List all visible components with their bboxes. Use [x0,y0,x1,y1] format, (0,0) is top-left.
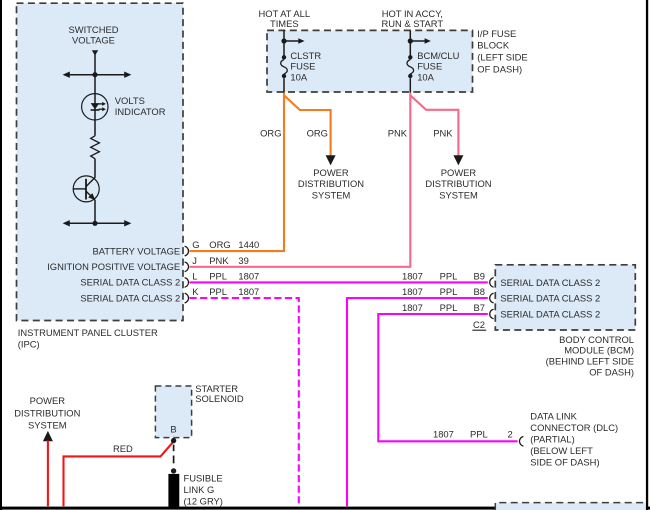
svg-text:C2: C2 [473,319,485,330]
svg-text:1440: 1440 [238,239,259,250]
wire: PNK branch to power distribution [410,95,458,156]
svg-text:DISTRIBUTION: DISTRIBUTION [298,178,364,189]
svg-text:RUN & START: RUN & START [381,18,443,29]
pin B9 bracket [490,278,494,288]
data link connector box (partial, bottom right) [495,503,646,510]
svg-text:LINK G: LINK G [184,484,215,495]
svg-text:K: K [192,286,199,297]
page border left [0,0,2,510]
svg-text:B9: B9 [474,270,485,281]
svg-text:TIMES: TIMES [270,18,299,29]
pin B7 bracket [490,309,494,319]
svg-text:POWER: POWER [30,395,66,406]
node: starter solenoid terminal B [171,438,176,443]
svg-text:SIDE OF DASH): SIDE OF DASH) [530,457,599,468]
svg-text:(IPC): (IPC) [18,339,40,350]
wire: ORG branch to power distribution [284,95,331,156]
fusible link G (12 GRY) bar [168,474,179,507]
transistor [73,176,99,202]
svg-text:1807: 1807 [402,286,423,297]
svg-text:INSTRUMENT PANEL CLUSTER: INSTRUMENT PANEL CLUSTER [18,327,158,338]
fuse CLSTR 10A [281,55,288,93]
wire: PPL serial data (pin L to BCM B9) [190,281,488,283]
fuse BCM/CLU 10A [407,55,414,93]
svg-text:BODY CONTROL: BODY CONTROL [559,334,634,345]
pin 2 bracket (DLC) [519,437,523,447]
wire: PPL serial data (BCM B7 to DLC pin 2) [378,314,517,441]
svg-text:J: J [192,255,197,266]
svg-text:SERIAL DATA CLASS 2: SERIAL DATA CLASS 2 [80,277,180,288]
node: fusible link top [171,468,176,473]
svg-text:PPL: PPL [440,302,458,313]
svg-text:OF DASH): OF DASH) [589,367,634,378]
svg-text:RED: RED [113,443,133,454]
svg-text:BATTERY VOLTAGE: BATTERY VOLTAGE [92,245,180,256]
svg-text:PPL: PPL [209,286,227,297]
node: bcm/clu feed junction with arrow [408,38,413,43]
page border right [646,0,648,510]
wire: RED from fusible link to starter solenoid B [64,442,173,506]
svg-text:ORG: ORG [209,239,230,250]
svg-text:POWER: POWER [441,167,477,178]
svg-text:B8: B8 [474,286,485,297]
svg-text:B: B [170,423,176,434]
volts indicator LED [82,94,108,120]
svg-text:1807: 1807 [402,270,423,281]
svg-text:DISTRIBUTION: DISTRIBUTION [14,407,80,418]
svg-text:SYSTEM: SYSTEM [439,189,478,200]
BCM/CLU fuse feed wire [409,30,411,57]
wire [94,200,96,224]
svg-text:CLSTR: CLSTR [290,50,321,61]
svg-text:SERIAL DATA CLASS 2: SERIAL DATA CLASS 2 [500,308,600,319]
page border bottom [0,507,650,510]
svg-text:I/P FUSE: I/P FUSE [477,28,516,39]
svg-text:B7: B7 [474,302,485,313]
svg-text:10A: 10A [417,72,434,83]
svg-text:1807: 1807 [238,286,259,297]
svg-text:SOLENOID: SOLENOID [195,393,244,404]
starter solenoid box [155,386,191,438]
svg-text:FUSE: FUSE [290,60,315,71]
svg-text:OF DASH): OF DASH) [477,64,522,75]
svg-text:PPL: PPL [209,271,227,282]
CLSTR fuse feed wire [283,30,285,57]
pin B8 bracket [490,293,494,303]
svg-text:ORG: ORG [307,127,328,138]
wire: PPL dashed serial data (pin K, off page) [190,298,299,506]
node: clstr feed junction with arrow [281,38,286,43]
svg-text:PNK: PNK [209,255,229,266]
svg-text:SYSTEM: SYSTEM [28,419,67,430]
svg-text:1807: 1807 [433,428,454,439]
switched voltage bus crossbar with arrows [63,72,132,78]
svg-text:VOLTS: VOLTS [115,95,145,106]
wire: ORG main (fuse to pin G) [190,93,285,252]
wire: RED to power distribution (up arrow) [43,431,53,441]
svg-text:PNK: PNK [388,127,408,138]
svg-text:VOLTAGE: VOLTAGE [72,35,115,46]
svg-text:SERIAL DATA CLASS 2: SERIAL DATA CLASS 2 [500,292,600,303]
wire: PPL serial data (BCM B8, off page) [347,298,488,506]
svg-text:ORG: ORG [260,127,281,138]
pin L bracket [185,278,189,288]
svg-text:CONNECTOR (DLC): CONNECTOR (DLC) [530,422,618,433]
svg-text:SERIAL DATA CLASS 2: SERIAL DATA CLASS 2 [500,277,600,288]
svg-text:POWER: POWER [313,167,349,178]
svg-text:PPL: PPL [440,270,458,281]
svg-text:(LEFT SIDE: (LEFT SIDE [477,52,527,63]
svg-text:SYSTEM: SYSTEM [312,189,351,200]
wire: PNK main (fuse to pin J) [190,93,411,267]
pin K bracket [185,293,189,303]
body control module box (BCM) [495,265,635,330]
wire: switched voltage feed with down arrow [92,50,98,55]
I/P fuse block box [267,30,473,92]
svg-text:SERIAL DATA CLASS 2: SERIAL DATA CLASS 2 [80,292,180,303]
svg-text:1807: 1807 [402,302,423,313]
svg-text:(12 GRY): (12 GRY) [184,496,223,507]
svg-text:BLOCK: BLOCK [477,39,510,50]
pin J bracket [185,262,189,272]
svg-text:PNK: PNK [433,127,453,138]
svg-text:(BELOW LEFT: (BELOW LEFT [530,445,593,456]
svg-text:SWITCHED: SWITCHED [69,24,119,35]
resistor [91,136,100,159]
svg-text:MODULE (BCM): MODULE (BCM) [564,345,634,356]
svg-text:BCM/CLU: BCM/CLU [417,50,459,61]
svg-text:PPL: PPL [440,286,458,297]
battery voltage bus crossbar with arrows [63,220,132,226]
svg-text:(BEHIND LEFT SIDE: (BEHIND LEFT SIDE [546,356,634,367]
svg-text:(PARTIAL): (PARTIAL) [530,434,574,445]
svg-text:FUSIBLE: FUSIBLE [184,473,223,484]
svg-text:INDICATOR: INDICATOR [115,106,166,117]
instrument panel cluster box (IPC) [17,3,184,320]
wire [94,159,96,178]
svg-text:IGNITION POSITIVE VOLTAGE: IGNITION POSITIVE VOLTAGE [47,261,180,272]
svg-text:1807: 1807 [238,271,259,282]
wire: dashed link to fusible link [173,445,175,452]
svg-text:FUSE: FUSE [417,60,442,71]
svg-text:PPL: PPL [470,428,488,439]
svg-text:10A: 10A [290,72,307,83]
svg-text:DISTRIBUTION: DISTRIBUTION [425,178,491,189]
svg-text:G: G [192,239,199,250]
svg-text:L: L [192,271,197,282]
pin G bracket [185,246,189,256]
svg-text:DATA LINK: DATA LINK [530,410,577,421]
svg-text:2: 2 [508,428,513,439]
svg-text:39: 39 [238,255,248,266]
